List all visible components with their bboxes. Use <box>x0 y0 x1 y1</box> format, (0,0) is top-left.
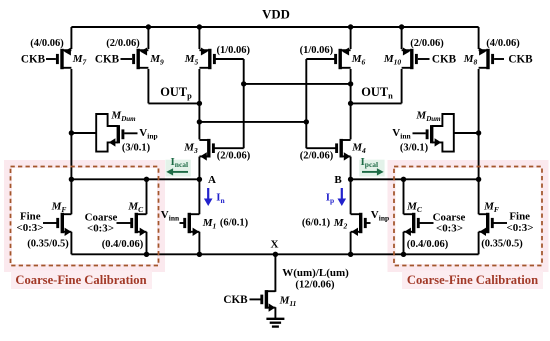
svg-text:<0:3>: <0:3> <box>436 222 463 234</box>
svg-text:(3/0.1): (3/0.1) <box>122 143 151 154</box>
svg-text:(6/0.1): (6/0.1) <box>302 218 331 229</box>
svg-text:(2/0.06): (2/0.06) <box>410 38 444 49</box>
svg-text:CKB: CKB <box>95 54 120 66</box>
svg-text:(2/0.06): (2/0.06) <box>300 151 334 162</box>
svg-text:(2/0.06): (2/0.06) <box>106 38 140 49</box>
svg-text:CKB: CKB <box>432 54 457 66</box>
svg-text:CKB: CKB <box>21 54 46 66</box>
svg-text:Coarse-Fine Calibration: Coarse-Fine Calibration <box>407 273 538 287</box>
svg-text:B: B <box>334 174 342 186</box>
svg-text:CKB: CKB <box>508 54 533 66</box>
svg-text:W(um)/L(um): W(um)/L(um) <box>282 267 349 279</box>
svg-text:VDD: VDD <box>262 8 290 22</box>
svg-text:(0.4/0.06): (0.4/0.06) <box>407 239 449 250</box>
svg-text:(4/0.06): (4/0.06) <box>30 38 64 49</box>
svg-text:(4/0.06): (4/0.06) <box>486 38 520 49</box>
svg-text:(1/0.06): (1/0.06) <box>217 45 251 56</box>
svg-text:Fine: Fine <box>20 211 41 223</box>
svg-text:<0:3>: <0:3> <box>507 222 534 234</box>
svg-text:(0.4/0.06): (0.4/0.06) <box>102 239 144 250</box>
svg-text:(12/0.06): (12/0.06) <box>295 280 335 291</box>
svg-text:(1/0.06): (1/0.06) <box>300 45 334 56</box>
svg-text:(6/0.1): (6/0.1) <box>220 218 249 229</box>
svg-text:(0.35/0.5): (0.35/0.5) <box>481 239 523 250</box>
svg-text:<0:3>: <0:3> <box>17 222 44 234</box>
svg-text:Coarse-Fine Calibration: Coarse-Fine Calibration <box>15 273 146 287</box>
svg-text:CKB: CKB <box>223 294 248 306</box>
svg-text:A: A <box>208 174 216 186</box>
svg-text:Fine: Fine <box>509 211 530 223</box>
svg-text:(2/0.06): (2/0.06) <box>217 151 251 162</box>
svg-text:<0:3>: <0:3> <box>87 222 114 234</box>
svg-text:X: X <box>271 239 279 251</box>
svg-text:(3/0.1): (3/0.1) <box>400 143 429 154</box>
svg-text:(0.35/0.5): (0.35/0.5) <box>27 239 69 250</box>
